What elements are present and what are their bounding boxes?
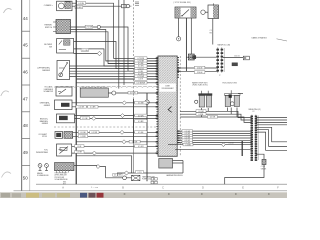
wire thermo pin2 bend to DME xyxy=(71,30,159,61)
bus line left of DME lower tail xyxy=(133,143,135,173)
svg-text:GR/WS: GR/WS xyxy=(261,168,266,170)
wire label bus 2 xyxy=(196,113,206,116)
svg-text:PROM FUER: PROM FUER xyxy=(55,177,65,179)
wire label B5a xyxy=(135,101,148,104)
frame bottom line upper xyxy=(36,183,287,185)
dashed group separator line xyxy=(54,126,158,128)
splice diamond bottom rail xyxy=(124,171,128,175)
svg-text:FUEL INJECTORS: FUEL INJECTORS xyxy=(223,82,238,84)
wire DME pin 16 feed xyxy=(108,63,158,65)
DME right edge pin stubs xyxy=(177,57,179,143)
svg-text:0.5 BL: 0.5 BL xyxy=(199,114,204,116)
wire label B7b xyxy=(75,151,84,154)
component X12 bottom connector block xyxy=(55,163,75,171)
wire label DME out 6 xyxy=(182,141,193,144)
svg-text:0.5 GE/SW: 0.5 GE/SW xyxy=(137,83,146,85)
svg-text:SW: SW xyxy=(49,46,52,48)
wire DME pin 18 feed xyxy=(70,68,159,70)
wire DME output 2 to panel strip xyxy=(177,132,251,134)
trunk wire vertical right to bottom rail xyxy=(146,93,148,181)
wire label B6a2 xyxy=(135,114,148,117)
svg-text:0.75 SW: 0.75 SW xyxy=(86,27,93,29)
connector strip R pins xyxy=(251,116,258,161)
connector strip M pins xyxy=(216,49,223,72)
wire label 0.75 SW xyxy=(135,75,148,78)
wire label 0.5 GE/SW xyxy=(135,81,148,84)
svg-text:1 — cm: 1 — cm xyxy=(91,187,98,189)
wire DME output 1 to panel strip xyxy=(177,130,251,132)
DME left edge pin ladder xyxy=(156,57,158,154)
component injectors connector xyxy=(225,94,241,96)
svg-text:0.5 SW: 0.5 SW xyxy=(138,102,144,104)
wire panel strip out 3 xyxy=(256,121,287,123)
wire thermo pin3 bend to DME xyxy=(71,32,159,64)
wire M3 circle to box xyxy=(205,11,208,13)
shield crease wavy line xyxy=(54,85,158,88)
svg-text:44: 44 xyxy=(23,16,29,21)
page crease arc mid-left xyxy=(1,91,9,96)
wire panel strip out 2 xyxy=(256,119,287,121)
svg-text:GEBER: GEBER xyxy=(42,123,49,125)
wire S10 left pin down xyxy=(178,18,180,37)
legend squares xyxy=(151,178,157,184)
wire S10 right pin down xyxy=(190,18,192,54)
svg-text:C14.04: C14.04 xyxy=(197,72,203,74)
splice diamond B6b xyxy=(92,116,96,120)
svg-text:0.5 GN: 0.5 GN xyxy=(78,3,84,5)
wire K1 pin1 to trunk xyxy=(72,3,158,58)
connector circle on throttle wire xyxy=(112,91,116,95)
svg-text:49: 49 xyxy=(23,150,29,155)
dashed bus line left of DME xyxy=(133,0,135,99)
svg-text:0.5 WS: 0.5 WS xyxy=(130,92,136,94)
splice diamond B5 xyxy=(122,101,126,105)
wire B7 pin1 to DME xyxy=(72,145,158,147)
svg-text:50: 50 xyxy=(23,175,29,180)
wire DME pin 17 feed xyxy=(70,65,159,67)
svg-text:0.5 GE: 0.5 GE xyxy=(210,117,216,119)
taskbar separator mark xyxy=(168,193,170,195)
wire label DME out 5 xyxy=(182,139,193,142)
harness note leader line xyxy=(277,39,288,41)
wire aux to DME with splice xyxy=(76,141,158,143)
svg-text:WIDERSTAND: WIDERSTAND xyxy=(36,151,49,154)
wire label 0.5 GN xyxy=(77,2,86,5)
frame left border outer line xyxy=(21,0,23,191)
wire B7 aux down to bottom rail xyxy=(76,156,132,173)
svg-text:46: 46 xyxy=(23,70,29,75)
wire label 0.5 GN S3 xyxy=(81,48,89,51)
wire DME pin 22 feed xyxy=(76,78,158,80)
frame left border inner line xyxy=(29,0,31,191)
wire panel strip out 1 xyxy=(256,117,287,119)
component S3 blower switch xyxy=(57,39,74,54)
svg-text:0.5 VI: 0.5 VI xyxy=(139,79,144,81)
taskbar icon yellow folder xyxy=(26,193,39,198)
svg-text:0.5 BR: 0.5 BR xyxy=(229,143,235,145)
wire DME pin 14 feed xyxy=(114,57,159,59)
svg-text:0.5 BR: 0.5 BR xyxy=(185,144,191,146)
bus wire 3 xyxy=(180,117,251,122)
svg-text:M16: M16 xyxy=(63,181,66,183)
svg-text:CLIMATE +: CLIMATE + xyxy=(44,4,53,7)
frame bottom line lower xyxy=(14,190,288,192)
grid row tick xyxy=(22,84,30,86)
svg-text:0.5 GR: 0.5 GR xyxy=(79,107,85,109)
svg-text:DME: DME xyxy=(165,86,170,88)
splice diamond X12 xyxy=(96,165,100,169)
wire label B7a xyxy=(75,145,84,148)
taskbar icon dark xyxy=(89,193,96,198)
wire label 0.75 WS xyxy=(135,57,148,60)
wire X12 to splice xyxy=(74,165,98,167)
wire label bus 1 xyxy=(196,110,206,113)
connector circle on S10 wire xyxy=(177,37,181,41)
wire DME pin 19 feed xyxy=(70,70,159,72)
connector arrow plug xyxy=(243,56,249,60)
svg-text:C14.06: C14.06 xyxy=(197,67,203,69)
component S10 stop signal switch xyxy=(175,7,196,18)
bus wire 1 xyxy=(180,111,251,117)
DME left edge pin stubs xyxy=(156,58,158,154)
wire DME pin 21 feed xyxy=(70,75,159,77)
wire F4 pin2 to DME xyxy=(73,135,158,137)
wire DME pin 23 feed xyxy=(76,82,158,84)
svg-text:0.5 BR: 0.5 BR xyxy=(80,136,86,138)
wire DME output 5 to panel strip xyxy=(177,139,251,141)
svg-text:(SPEICHER) MIT: (SPEICHER) MIT xyxy=(55,175,67,177)
wire panel strip step 2 xyxy=(256,130,287,147)
wire M3 down to manifold connector xyxy=(212,19,214,45)
trunk wire vertical C xyxy=(123,0,125,85)
connector box C1 lower right xyxy=(262,159,266,164)
splice diamond B7 xyxy=(92,151,96,155)
connector strip M left rail xyxy=(217,48,219,73)
plug connector X3 xyxy=(122,4,127,7)
wire lambda line with junction xyxy=(168,144,252,146)
wire DME output 3 to panel strip xyxy=(177,135,251,137)
svg-text:( FUEL INJECTION ): ( FUEL INJECTION ) xyxy=(192,85,208,87)
wire lower lambda line xyxy=(175,148,252,150)
component M3 blower motor feed circle xyxy=(201,10,205,14)
wire strip bottom jog xyxy=(256,154,264,159)
wire panel strip out 4 xyxy=(256,124,287,126)
svg-text:MANIFOLD (M): MANIFOLD (M) xyxy=(218,44,231,47)
grid row tick xyxy=(22,138,30,140)
wire manifold out right xyxy=(223,57,244,59)
svg-text:0.5 WS: 0.5 WS xyxy=(138,115,144,117)
wire DME output 6 to panel strip xyxy=(177,142,251,144)
taskbar icon grey xyxy=(57,193,70,197)
wire label B6b2 xyxy=(135,120,148,123)
wire label F4a2 xyxy=(90,131,99,134)
taskbar icon red xyxy=(97,193,104,198)
svg-text:C14.05: C14.05 xyxy=(234,56,240,58)
wire label C14.04 xyxy=(194,71,205,74)
svg-text:GEBER: GEBER xyxy=(44,105,51,107)
wire label 0.5 BR xyxy=(75,6,83,9)
wire label DME out 1 xyxy=(182,130,193,133)
wire label 0.5 GE xyxy=(135,62,148,65)
wire label DME out 4 xyxy=(182,137,193,140)
connector strip M bracket xyxy=(224,48,226,72)
bus line left of DME solid lower xyxy=(133,99,135,143)
wire F2 to corner x128 xyxy=(71,27,159,71)
wire label bottom rail xyxy=(136,171,144,174)
wire lambda out 1 xyxy=(173,160,184,162)
grid row tick xyxy=(22,164,30,166)
wire label C14.06 xyxy=(194,66,205,69)
connector strip R bracket xyxy=(258,116,260,161)
grid row tick xyxy=(22,57,30,59)
connector strip R right rail xyxy=(255,115,257,161)
taskbar separator mark xyxy=(268,193,270,195)
wire S3 pin1 to corner x116 xyxy=(74,42,159,69)
taskbar band xyxy=(0,192,287,198)
connector blob on manifold feed xyxy=(193,56,196,59)
splice diamond right rail xyxy=(222,143,226,147)
wire label 0.5 GR xyxy=(135,72,148,75)
grid row tick xyxy=(22,30,30,32)
component F2 thermo time switch xyxy=(56,20,71,34)
svg-text:D: D xyxy=(202,187,204,190)
main harness trunk heavy vertical xyxy=(75,0,77,184)
svg-text:C: C xyxy=(162,187,164,190)
wire label tank b xyxy=(118,174,122,177)
svg-text:0.5 GR: 0.5 GR xyxy=(138,146,144,148)
component B6 reference sensor xyxy=(57,114,75,123)
wire B5 pin2 to DME xyxy=(72,106,158,108)
wire B7 pin2 to DME with splice xyxy=(72,152,158,154)
trunk wire vertical A xyxy=(118,0,120,89)
taskbar separator mark xyxy=(235,193,237,195)
bus wire 2 xyxy=(180,114,251,120)
wire throttle connector to DME xyxy=(108,92,158,94)
wire lambda out 2 xyxy=(173,162,184,164)
svg-text:0.5 BR: 0.5 BR xyxy=(76,7,82,9)
taskbar separator mark xyxy=(201,193,203,195)
wire B6 pin1 to DME with splice xyxy=(75,115,159,117)
svg-text:( STOP SIGNAL SW ): ( STOP SIGNAL SW ) xyxy=(174,1,192,4)
svg-text:SCHALTER: SCHALTER xyxy=(44,90,54,93)
dashed line right of DME xyxy=(179,56,181,156)
wire B5 pin1 to DME with splice xyxy=(72,102,158,104)
component B7 NTC temperature sensor xyxy=(57,144,72,156)
wire label B6b xyxy=(80,117,89,120)
wire label DME out 3 xyxy=(182,134,193,137)
svg-text:0.5 BR: 0.5 BR xyxy=(90,107,96,109)
component lambda control unit xyxy=(159,159,173,169)
ground symbol G2 xyxy=(45,164,49,168)
wire label tank a xyxy=(113,174,117,177)
wire lambda vertical join xyxy=(182,161,184,174)
wire panel strip step 3 xyxy=(256,132,287,150)
component B5 speed sensor xyxy=(55,100,73,110)
wire DME to manifold pin7 xyxy=(177,70,217,72)
wire B8 pin2 down xyxy=(207,108,209,111)
wire B6 pin2 to DME with splice xyxy=(75,117,159,119)
wire label aux xyxy=(129,140,140,143)
junction circle on thermo wire xyxy=(97,25,100,28)
junction circle tank line xyxy=(123,176,127,180)
wire label DME out 2 xyxy=(182,132,193,135)
svg-text:0.5 GR: 0.5 GR xyxy=(132,141,138,143)
wire S3 pin2 to corner x104 xyxy=(74,49,159,66)
wire DME output 4 to panel strip xyxy=(177,137,251,139)
svg-text:47: 47 xyxy=(23,96,29,101)
svg-text:STUD: STUD xyxy=(42,136,48,138)
wire manifold feed rail xyxy=(186,56,217,58)
svg-text:SWITCH: SWITCH xyxy=(45,27,53,29)
taskbar icon blue xyxy=(80,193,87,198)
wire label 0.75 BR xyxy=(135,59,148,62)
wire label B7a2 xyxy=(135,145,148,148)
page crease arc bottom-left xyxy=(2,172,12,178)
component B8 water temp sensor II xyxy=(199,94,212,96)
wire label F4a3 xyxy=(135,131,148,134)
wire S3 stub to splice xyxy=(74,53,98,55)
wire DME pin 20 feed xyxy=(70,73,159,75)
wire label 0.5 VI xyxy=(135,78,148,81)
svg-text:0.5 GE: 0.5 GE xyxy=(80,132,86,134)
svg-text:45: 45 xyxy=(23,43,29,48)
svg-text:0.5 SW: 0.5 SW xyxy=(92,132,98,134)
wire stub right edge xyxy=(238,93,243,95)
component X8 throttle connector block xyxy=(80,88,108,97)
wire injector pin3 down xyxy=(236,108,238,118)
svg-text:0.5 BR: 0.5 BR xyxy=(138,121,144,123)
svg-text:MESSER: MESSER xyxy=(42,70,50,72)
svg-text:KABELSTRAENG: KABELSTRAENG xyxy=(252,37,268,40)
wire injector pin1 down xyxy=(226,108,228,112)
wire label 0.75 RT xyxy=(135,67,148,70)
svg-text:0.5: 0.5 xyxy=(114,175,116,177)
wire label 0.5 GN xyxy=(135,65,148,68)
connector strip R left rail xyxy=(251,115,253,161)
page crease arc top-left xyxy=(4,9,12,13)
page background xyxy=(0,0,287,198)
crease mark on DME xyxy=(168,107,172,113)
wire DME pin 15 feed xyxy=(106,60,158,62)
wire B8 pin1 down xyxy=(201,108,203,117)
wire label F4a xyxy=(78,131,87,134)
wire panel strip step 1 xyxy=(256,127,287,142)
connector marks on dashed bus top xyxy=(135,1,139,3)
component M3 blower resistor pack xyxy=(208,5,219,19)
connector strip M right rail xyxy=(221,48,223,73)
component F4 coolant temp switch xyxy=(55,132,63,139)
connector C5 box xyxy=(232,63,238,66)
wire label lambda line xyxy=(183,143,193,146)
svg-text:C2: C2 xyxy=(252,111,254,113)
svg-text:PANEL/TAIL (R): PANEL/TAIL (R) xyxy=(249,108,262,111)
wire label throttle xyxy=(128,91,138,94)
ground symbol G1 xyxy=(38,164,42,168)
wire label 0.5 GR B5b xyxy=(76,105,87,108)
svg-text:0.5 BR: 0.5 BR xyxy=(77,152,83,154)
wire bottom rail with splice xyxy=(117,172,183,174)
wire K1 pin2 to plug X3 xyxy=(72,5,122,7)
taskbar separator mark xyxy=(124,193,126,195)
svg-text:0.5 GE: 0.5 GE xyxy=(82,118,88,120)
wire injector pin2 down xyxy=(230,108,232,115)
connector box on S10 right wire xyxy=(188,54,194,60)
splice diamond aux xyxy=(122,140,126,144)
wire DME to manifold pin6 xyxy=(177,67,217,69)
component tank unit box with X xyxy=(132,175,140,180)
svg-text:48: 48 xyxy=(23,123,29,128)
splice diamond B6a xyxy=(121,114,125,118)
heavy junction bar xyxy=(241,141,243,156)
component K1 climate control actuator xyxy=(57,1,72,11)
splice diamond on S3 wire xyxy=(97,51,101,55)
grid row tick xyxy=(22,111,30,113)
wire label F4b xyxy=(78,135,87,138)
taskbar icon yellow-grey xyxy=(42,193,55,197)
wire tank line xyxy=(106,177,132,179)
svg-text:0.5 GN: 0.5 GN xyxy=(82,50,88,52)
svg-text:C1 04: C1 04 xyxy=(261,166,265,168)
wire label 0.5 BL xyxy=(135,70,148,73)
wire F4 pin1 to DME xyxy=(73,131,158,133)
wire label B5b2 xyxy=(88,105,99,108)
op-amp DME control unit U1 xyxy=(158,56,177,156)
junction circle on trunk xyxy=(145,100,149,104)
splice diamond F4 xyxy=(120,130,124,134)
component S5 throttle switch xyxy=(56,87,72,96)
wire label 0.75 SW xyxy=(85,25,93,28)
wire label bus 3 xyxy=(208,116,218,119)
svg-text:0.5 GE: 0.5 GE xyxy=(138,132,144,134)
component B2 air flow meter xyxy=(57,61,70,80)
wire C1 box tail xyxy=(225,165,264,185)
wire S10 middle pin down to C14.04 rail xyxy=(185,18,187,71)
wire splice down to bottom rail xyxy=(100,167,106,178)
taskbar icon group left xyxy=(1,193,10,197)
